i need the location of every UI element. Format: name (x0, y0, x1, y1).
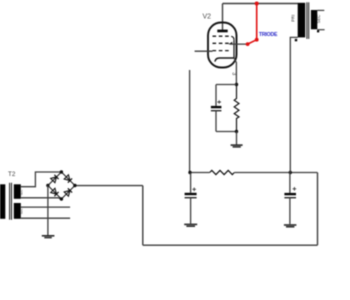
OPT secondary terminal square dot (317, 30, 319, 32)
transformer T2 core (9, 183, 11, 220)
ground (cathode) (231, 145, 243, 147)
wire B+ left riser (142, 186, 144, 246)
red triode strap wire diagonal (248, 40, 257, 44)
red triode strap wire vertical (256, 4, 258, 40)
transformer T2 secondary winding HV (14, 184, 21, 199)
tube V2 envelope (208, 23, 237, 68)
ground (filter cap 2) (284, 225, 297, 227)
wire cathode bottom tie (216, 131, 237, 133)
node bridge bottom (60, 197, 63, 200)
internal suppressor tie wire (233, 40, 235, 58)
red junction dot on rail (255, 2, 259, 6)
grid row 1 (suppressor, dashed) (213, 35, 232, 37)
wire T2 LV stub 1 (21, 206, 70, 208)
red dot at screen tie (246, 42, 250, 46)
wire junction to bypass cap branch (216, 84, 237, 86)
grid row 2 (screen, dashed) (213, 42, 232, 44)
wire cathode lead (234, 58, 236, 85)
cathode (215, 58, 234, 62)
wire B+ bottom run (143, 244, 318, 246)
capacitor filter C2 plus sign (293, 187, 297, 191)
wire filter rail right (234, 172, 317, 174)
wire T2 HV bottom to bridge AC2 (21, 198, 62, 199)
capacitor C cathode bypass bottom plate (211, 110, 222, 112)
wire filter cap 2 bottom lead (289, 198, 291, 225)
suppressor-to-cathode hook (231, 36, 234, 40)
wire T2 LV stub 2 (21, 217, 70, 219)
node cathode bottom junction (235, 130, 238, 133)
transformer OPT secondary winding (311, 10, 317, 29)
svg-text:T2: T2 (8, 171, 16, 178)
wire control grid stub (195, 50, 213, 52)
svg-text:V2: V2 (203, 13, 212, 20)
resistor R filter (series dropper) (210, 170, 235, 174)
capacitor filter C1 bottom plate (185, 197, 197, 199)
wire floating coupling riser (189, 70, 191, 173)
screen connection arrow (228, 42, 232, 45)
transformer T2 secondary winding LV (14, 203, 21, 219)
wire OPT secondary stub top (317, 9, 324, 11)
svg-text:PRI: PRI (291, 15, 296, 22)
wire OPT primary bottom to rail (290, 37, 298, 172)
diode D1 (L to T) (51, 175, 59, 183)
transformer OPT primary winding (298, 3, 306, 38)
wire ground stem (236, 132, 238, 145)
node rail right junction (289, 171, 292, 174)
node bridge top (60, 170, 63, 173)
resistor R cathode (234, 85, 239, 132)
wire B+ filter rail (190, 172, 210, 174)
svg-text:3: 3 (230, 72, 236, 75)
wire bridge negative to ground (47, 186, 49, 236)
capacitor filter C1 top plate (185, 193, 197, 195)
wire T2 HV top to bridge AC1 (21, 172, 62, 187)
grid row 3 (control grid, dashed) (213, 50, 232, 52)
OPT terminal square dot (295, 39, 297, 41)
capacitor filter C2 bottom plate (284, 197, 296, 199)
red dot at bend (255, 38, 259, 42)
capacitor C cathode bypass top plate (211, 106, 222, 108)
node cathode top junction (235, 83, 238, 86)
svg-text:SEC: SEC (316, 15, 321, 24)
wire bypass cap bottom lead (215, 111, 217, 132)
capacitor filter C2 top plate (284, 193, 296, 195)
svg-text:TRIODE: TRIODE (259, 32, 278, 38)
wire OPT secondary stub bottom (317, 29, 324, 31)
ground (filter cap 1) (184, 224, 197, 226)
wire filter cap 2 top lead (289, 173, 291, 193)
wire filter cap 1 top lead (190, 173, 192, 193)
ground (bridge) (42, 236, 55, 238)
wire bridge output to riser (75, 185, 143, 187)
svg-text:SEC: SEC (20, 208, 24, 214)
node bridge left (46, 184, 49, 187)
transformer OPT core (306, 2, 308, 39)
capacitor C cathode bypass plus sign (217, 100, 221, 104)
wire plate lead from rail into tube (222, 4, 224, 31)
plate (anode) bar (217, 30, 227, 33)
node bridge right (73, 184, 76, 187)
node rail left junction (188, 171, 191, 174)
diode D4 (B to R) (64, 188, 72, 196)
bridge rectifier edges (48, 172, 75, 199)
wire filter cap 1 bottom lead (190, 198, 192, 224)
wire screen grid to triode tie point (230, 43, 248, 45)
diode D2 (T to R) (64, 175, 72, 183)
wire top B+ rail from tube plate to OPT primary (223, 3, 298, 5)
transformer T2 primary winding (0, 184, 5, 219)
wire B+ return loop right riser (317, 173, 319, 246)
wire bypass cap top lead (215, 85, 217, 106)
diode D3 (L to B) (51, 188, 59, 196)
capacitor filter C1 plus sign (192, 188, 196, 192)
svg-text:SEC: SEC (20, 189, 24, 195)
